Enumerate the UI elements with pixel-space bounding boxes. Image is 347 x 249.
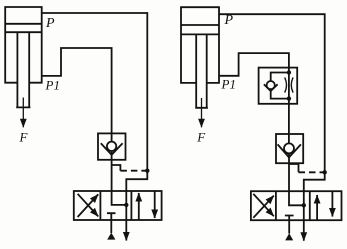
check valve U1 ball <box>107 142 116 151</box>
directional valve V2 body <box>251 191 342 220</box>
valve V2 middle cell elbow <box>289 191 304 205</box>
valve V2 middle cell junction dot <box>302 203 306 207</box>
cylinder 2 piston <box>181 25 219 34</box>
valve V2 right cell up arrow <box>316 195 318 220</box>
flow control FC1 top junction dot <box>287 70 291 74</box>
svg-text:P: P <box>224 13 234 28</box>
pilot tap left (solid part) <box>112 165 121 171</box>
svg-text:P1: P1 <box>45 77 60 92</box>
valve V2 crossed-arrows (left cell) <box>253 196 273 218</box>
valve V2 cell dividers <box>276 191 310 220</box>
cylinder 1 piston <box>5 24 42 32</box>
valve V1 blocked port T <box>107 213 116 233</box>
check valve U2 ball <box>284 143 294 153</box>
directional valve V1 body <box>74 191 162 220</box>
pilot tap right (solid part) <box>289 164 299 172</box>
wire P1 line right: cylinder side port to flow control <box>219 53 289 143</box>
flow control FC1 bottom junction dot <box>287 96 291 100</box>
cylinder 1 body <box>5 7 42 83</box>
svg-text:P: P <box>45 16 55 31</box>
check valve U1 outlet line to valve <box>111 151 113 191</box>
force arrow F2 <box>201 98 203 127</box>
cylinder 1 rod <box>16 32 30 107</box>
valve V2 blocked port T <box>285 216 294 234</box>
svg-text:F: F <box>196 130 206 145</box>
check valve U1 inlet line <box>111 133 113 141</box>
valve V1 middle cell elbow <box>112 191 127 205</box>
force arrow F1 <box>22 98 24 128</box>
wire P line right: cylinder top port to valve <box>219 14 325 191</box>
wire P line left: cylinder top port to valve <box>42 13 148 191</box>
check valve U2 seat <box>278 144 301 157</box>
check valve U1 seat <box>101 143 123 155</box>
valve V1 cell dividers <box>100 191 131 220</box>
valve V2 right cell down arrow <box>331 191 333 216</box>
pilot check valve U2 box <box>276 134 303 163</box>
supply source triangle left <box>107 233 115 240</box>
flow control FC1 box <box>259 68 298 104</box>
flow control FC1 throttle arcs <box>285 77 293 92</box>
cylinder 2 body <box>181 7 219 83</box>
check valve U2 outlet line to valve <box>288 153 290 191</box>
junction dot right <box>323 170 327 174</box>
supply source triangle right <box>285 233 293 240</box>
junction dot left <box>145 169 149 173</box>
valve V1 right cell up arrow <box>138 193 140 220</box>
valve V2 through line to exhaust arrow <box>303 191 305 241</box>
pilot line left (dashed) <box>120 170 146 172</box>
svg-text:P1: P1 <box>221 77 236 92</box>
svg-text:F: F <box>19 130 29 145</box>
valve V1 middle cell junction dot <box>124 203 128 207</box>
pilot check valve U1 box <box>98 133 126 159</box>
flow control FC1 check seat <box>264 84 278 91</box>
valve V1 crossed-arrows (left cell) <box>78 194 99 217</box>
flow control FC1 bypass branch <box>271 73 289 99</box>
cylinder 2 rod <box>195 34 208 107</box>
flow control FC1 check ball <box>267 81 275 89</box>
wire P1 line left: cylinder side port to pilot check valve <box>42 48 112 133</box>
valve V1 through line to exhaust arrow <box>125 191 127 241</box>
pilot line right (dashed) <box>299 171 324 173</box>
valve V1 right cell down arrow <box>154 191 156 218</box>
